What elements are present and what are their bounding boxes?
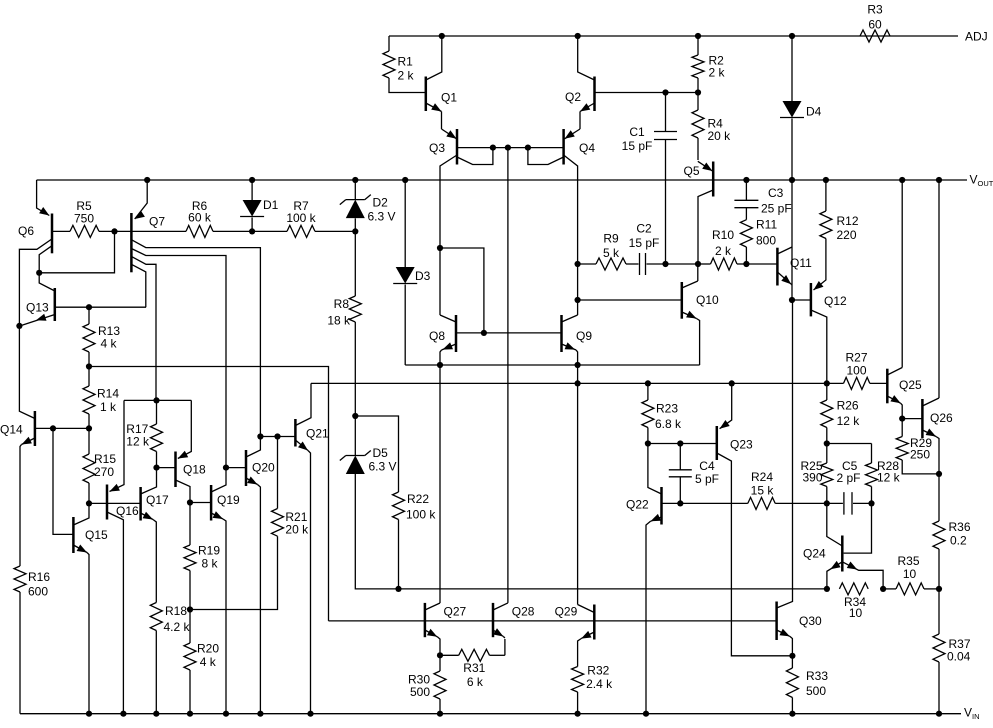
wire R6 to D1 bbox=[213, 230, 252, 232]
resistor R11 bbox=[740, 220, 752, 247]
transistor Q8 bbox=[440, 315, 456, 322]
transistor Q19 bbox=[211, 468, 226, 492]
svg-text:Q21: Q21 bbox=[306, 427, 329, 441]
svg-text:6 k: 6 k bbox=[467, 675, 484, 689]
wire Q6 collector 2 bbox=[39, 246, 52, 273]
svg-text:8 k: 8 k bbox=[202, 557, 219, 571]
svg-text:D5: D5 bbox=[373, 446, 389, 460]
svg-text:2.4 k: 2.4 k bbox=[586, 677, 613, 691]
svg-text:Q6: Q6 bbox=[18, 224, 34, 238]
svg-text:D1: D1 bbox=[263, 198, 279, 212]
capacitor C1 bbox=[662, 89, 668, 95]
transistor Q15 bbox=[73, 503, 89, 525]
svg-text:Q11: Q11 bbox=[790, 256, 812, 270]
diode D1 bbox=[249, 177, 255, 183]
wire Q6 base bbox=[52, 230, 70, 232]
svg-text:R23: R23 bbox=[656, 401, 678, 415]
resistor R14 bbox=[88, 367, 90, 387]
wire Q10 base bbox=[578, 299, 682, 301]
wire Q9 Q29 column bbox=[577, 365, 579, 605]
wire ADJ rail bbox=[389, 35, 958, 37]
resistor R28 bbox=[871, 444, 873, 464]
wire Q6 mirror tie bbox=[39, 231, 114, 272]
svg-text:R32: R32 bbox=[587, 664, 609, 678]
resistor R1 bbox=[388, 36, 390, 51]
wire mirror bus bbox=[89, 367, 329, 621]
wire sink rail bbox=[311, 382, 827, 384]
resistor R4 bbox=[697, 93, 699, 111]
svg-text:18 k: 18 k bbox=[327, 314, 351, 328]
transistor Q2 bbox=[593, 77, 596, 112]
svg-text:Q22: Q22 bbox=[626, 498, 649, 512]
transistor Q27 bbox=[425, 603, 440, 610]
svg-text:20 k: 20 k bbox=[708, 129, 732, 143]
transistor Q6 bbox=[37, 180, 50, 216]
svg-text:Q30: Q30 bbox=[799, 614, 822, 628]
wire Q11 base bbox=[746, 263, 777, 265]
transistor Q14 bbox=[19, 326, 35, 419]
svg-text:R12: R12 bbox=[837, 214, 859, 228]
capacitor C4 bbox=[679, 444, 681, 470]
resistor R10 bbox=[698, 263, 711, 265]
wire Q6 collector 1 bbox=[19, 239, 52, 326]
wire Q7 base bbox=[131, 230, 186, 232]
svg-text:Q18: Q18 bbox=[183, 463, 206, 477]
transistor Q24 bbox=[827, 503, 843, 546]
svg-text:390: 390 bbox=[802, 471, 822, 485]
resistor R13 bbox=[88, 307, 90, 324]
diode D4 bbox=[789, 33, 795, 39]
resistor R6 bbox=[186, 225, 213, 237]
resistor R22 bbox=[355, 416, 398, 492]
svg-text:500: 500 bbox=[410, 685, 430, 699]
svg-text:R16: R16 bbox=[28, 570, 50, 584]
wire Q21 base bbox=[260, 436, 295, 438]
resistor R7 bbox=[287, 225, 315, 237]
svg-text:220: 220 bbox=[837, 228, 857, 242]
svg-text:C4: C4 bbox=[699, 459, 715, 473]
svg-text:Q12: Q12 bbox=[824, 294, 847, 308]
wire VOUT rail bbox=[37, 179, 967, 181]
diode D2 zener bbox=[352, 177, 358, 183]
resistor R37 bbox=[938, 589, 940, 634]
resistor R5 bbox=[70, 225, 99, 237]
svg-text:100: 100 bbox=[846, 364, 866, 378]
resistor R19 bbox=[189, 503, 191, 546]
svg-text:600: 600 bbox=[28, 585, 48, 599]
resistor R2 bbox=[695, 33, 701, 39]
svg-text:Q7: Q7 bbox=[149, 215, 165, 229]
wire Q16 emitter bbox=[110, 400, 125, 491]
wire R7 to D2 bbox=[315, 230, 355, 232]
wire Q19 base bbox=[190, 502, 211, 504]
svg-text:Q23: Q23 bbox=[730, 438, 753, 452]
wire Q3 collector tie bbox=[457, 148, 493, 165]
wire Q7 collector 4 bbox=[131, 264, 145, 307]
resistor R3 bbox=[860, 30, 890, 42]
resistor R23 bbox=[647, 383, 649, 400]
svg-text:C3: C3 bbox=[768, 186, 784, 200]
svg-text:4 k: 4 k bbox=[200, 655, 217, 669]
svg-text:Q4: Q4 bbox=[579, 141, 595, 155]
resistor R18 bbox=[150, 603, 162, 631]
svg-text:100 k: 100 k bbox=[286, 211, 316, 225]
svg-text:Q17: Q17 bbox=[146, 493, 169, 507]
wire emitter rail bbox=[405, 364, 699, 366]
wire VIN rail bbox=[20, 713, 961, 715]
svg-text:Q13: Q13 bbox=[26, 301, 49, 315]
svg-text:R15: R15 bbox=[94, 452, 116, 466]
wire Q27 collector bbox=[439, 365, 441, 603]
svg-text:R19: R19 bbox=[198, 544, 220, 558]
svg-text:10: 10 bbox=[903, 567, 917, 581]
resistor R31 bbox=[440, 654, 459, 656]
transistor Q21 bbox=[295, 383, 311, 425]
svg-text:R20: R20 bbox=[197, 641, 219, 655]
wire Q12 base bbox=[792, 299, 811, 301]
svg-text:10: 10 bbox=[849, 606, 863, 620]
resistor R35 bbox=[883, 588, 896, 590]
transistor Q17 bbox=[141, 468, 157, 494]
resistor R8 bbox=[354, 231, 356, 296]
wire Q8 collector tie bbox=[437, 245, 443, 251]
svg-text:C2: C2 bbox=[636, 222, 652, 236]
transistor Q23 bbox=[720, 383, 732, 428]
svg-text:6.8 k: 6.8 k bbox=[655, 417, 682, 431]
transistor Q10 bbox=[681, 282, 684, 319]
resistor R12 bbox=[823, 177, 829, 183]
wire R28 branch bbox=[827, 443, 872, 445]
svg-text:Q29: Q29 bbox=[555, 605, 578, 619]
wire C5 left bbox=[827, 502, 843, 504]
svg-text:Q28: Q28 bbox=[512, 605, 535, 619]
resistor R32 bbox=[572, 667, 584, 693]
svg-text:Q15: Q15 bbox=[85, 528, 108, 542]
capacitor C5 bbox=[843, 492, 845, 515]
svg-text:4 k: 4 k bbox=[101, 337, 118, 351]
svg-text:Q27: Q27 bbox=[444, 605, 467, 619]
svg-text:R18: R18 bbox=[165, 604, 187, 618]
resistor R16 bbox=[14, 566, 26, 592]
svg-text:2 k: 2 k bbox=[709, 66, 726, 80]
wire Q7 collector 2 bbox=[131, 249, 226, 468]
resistor R20 bbox=[189, 610, 191, 644]
wire Q3 collector bbox=[440, 155, 457, 315]
transistor Q22 bbox=[648, 444, 662, 495]
svg-text:R11: R11 bbox=[756, 218, 777, 232]
svg-text:0.04: 0.04 bbox=[947, 650, 971, 664]
resistor R17 bbox=[156, 400, 158, 424]
svg-text:6.3 V: 6.3 V bbox=[369, 460, 397, 474]
svg-text:Q16: Q16 bbox=[116, 504, 139, 518]
svg-text:R35: R35 bbox=[897, 554, 919, 568]
svg-text:Q2: Q2 bbox=[565, 90, 581, 104]
transistor Q12 bbox=[810, 283, 813, 316]
svg-text:D2: D2 bbox=[373, 195, 389, 209]
svg-text:4.2 k: 4.2 k bbox=[164, 620, 191, 634]
resistor R24 bbox=[748, 497, 775, 509]
svg-text:1 k: 1 k bbox=[100, 400, 117, 414]
svg-text:500: 500 bbox=[806, 684, 826, 698]
svg-text:C1: C1 bbox=[629, 125, 645, 139]
wire R8 bias rail bbox=[399, 588, 827, 590]
wire emitter bus Q16/Q18 bbox=[124, 399, 191, 401]
wire Q18 emitter bbox=[178, 400, 192, 458]
resistor R29 bbox=[901, 419, 903, 437]
resistor R25 bbox=[826, 444, 828, 464]
resistor R21 bbox=[272, 509, 284, 537]
wire mirror base bus bbox=[329, 620, 777, 622]
transistor Q28 bbox=[493, 603, 508, 610]
resistor R30 bbox=[439, 655, 441, 671]
transistor Q18 bbox=[178, 451, 188, 459]
resistor R15 bbox=[88, 428, 90, 454]
transistor Q26 bbox=[921, 399, 924, 438]
svg-text:2 pF: 2 pF bbox=[837, 471, 861, 485]
wire Q4 collector bbox=[564, 155, 578, 315]
svg-text:D3: D3 bbox=[415, 269, 431, 283]
resistor R26 bbox=[826, 383, 828, 400]
wire Q26 base bbox=[902, 418, 922, 420]
resistor R33 bbox=[791, 656, 793, 668]
svg-text:R24: R24 bbox=[751, 470, 773, 484]
resistor R36 bbox=[938, 474, 940, 521]
svg-text:R10: R10 bbox=[712, 228, 734, 242]
wire Q3 base bbox=[457, 147, 564, 149]
svg-text:0.2: 0.2 bbox=[950, 534, 967, 548]
svg-text:60 k: 60 k bbox=[188, 211, 212, 225]
wire base column bbox=[507, 148, 509, 603]
wire Q16 base bbox=[89, 502, 141, 504]
svg-text:270: 270 bbox=[94, 465, 114, 479]
wire Q8 Q9 base bbox=[456, 332, 562, 334]
svg-text:250: 250 bbox=[910, 448, 930, 462]
transistor Q5 bbox=[712, 162, 715, 197]
svg-text:Q19: Q19 bbox=[217, 493, 240, 507]
transistor Q3 bbox=[456, 129, 459, 165]
wire Q7 collector 1 bbox=[131, 240, 260, 437]
capacitor C2 bbox=[639, 253, 641, 275]
svg-text:Q14: Q14 bbox=[0, 423, 23, 437]
wire C5 right bbox=[853, 502, 872, 504]
wire Q1 collector bbox=[439, 33, 445, 39]
svg-text:12 k: 12 k bbox=[877, 471, 901, 485]
wire Q7 collector 3 bbox=[131, 256, 156, 400]
svg-text:Q26: Q26 bbox=[930, 411, 953, 425]
svg-text:15 pF: 15 pF bbox=[622, 139, 653, 153]
svg-text:ADJ: ADJ bbox=[965, 30, 988, 44]
transistor Q13 bbox=[54, 288, 57, 321]
transistor Q29 bbox=[578, 605, 595, 613]
svg-text:15 pF: 15 pF bbox=[629, 236, 660, 250]
transistor Q7 bbox=[144, 177, 150, 183]
wire VOUT to Q12 base bbox=[791, 180, 793, 300]
wire R24 to R25 bbox=[775, 502, 827, 504]
wire R21 link bbox=[190, 536, 278, 609]
svg-text:20 k: 20 k bbox=[285, 523, 309, 537]
resistor R34 bbox=[839, 583, 868, 595]
resistor R27 bbox=[827, 382, 844, 384]
diode D3 bbox=[402, 177, 408, 183]
svg-text:R27: R27 bbox=[845, 351, 867, 365]
resistor R9 bbox=[578, 263, 596, 265]
svg-text:100 k: 100 k bbox=[406, 508, 436, 522]
svg-text:Q9: Q9 bbox=[576, 329, 592, 343]
transistor Q25 bbox=[886, 369, 889, 404]
wire Q4 collector tie bbox=[528, 148, 564, 165]
wire Q2 collector bbox=[575, 33, 581, 39]
svg-text:5 pF: 5 pF bbox=[695, 472, 719, 486]
svg-text:Q10: Q10 bbox=[696, 293, 719, 307]
svg-text:750: 750 bbox=[74, 211, 94, 225]
wire C2 to Q5 node bbox=[666, 263, 698, 265]
svg-text:25 pF: 25 pF bbox=[761, 202, 792, 216]
svg-text:Q3: Q3 bbox=[429, 141, 445, 155]
svg-text:Q25: Q25 bbox=[899, 378, 922, 392]
svg-text:Q20: Q20 bbox=[252, 461, 275, 475]
transistor Q20 bbox=[246, 437, 260, 458]
svg-text:60: 60 bbox=[868, 18, 882, 32]
wire Q20 base bbox=[226, 467, 246, 469]
transistor Q4 bbox=[562, 129, 565, 165]
wire Q18 base bbox=[157, 467, 176, 469]
transistor Q9 bbox=[562, 315, 578, 322]
svg-text:R14: R14 bbox=[97, 387, 119, 401]
wire Q15 base bbox=[53, 428, 73, 534]
wire R5 to Q7 bbox=[99, 230, 131, 232]
capacitor C3 bbox=[743, 177, 749, 183]
svg-text:Q5: Q5 bbox=[684, 164, 700, 178]
zener D5 bbox=[354, 416, 356, 456]
svg-text:R3: R3 bbox=[867, 3, 883, 17]
svg-text:R31: R31 bbox=[463, 661, 485, 675]
wire Q22 base bbox=[662, 502, 748, 504]
wire Q13 base bbox=[55, 306, 146, 308]
svg-text:R8: R8 bbox=[334, 297, 350, 311]
svg-text:12 k: 12 k bbox=[837, 414, 861, 428]
svg-text:D4: D4 bbox=[806, 105, 822, 119]
svg-text:R9: R9 bbox=[603, 232, 619, 246]
transistor Q16 bbox=[110, 484, 120, 492]
transistor Q1 bbox=[425, 77, 428, 112]
svg-text:R33: R33 bbox=[806, 669, 828, 683]
svg-text:2 k: 2 k bbox=[398, 69, 415, 83]
wire Q23 base bbox=[648, 443, 717, 445]
svg-text:R36: R36 bbox=[949, 520, 971, 534]
svg-text:Q24: Q24 bbox=[803, 547, 826, 561]
svg-text:6.3 V: 6.3 V bbox=[368, 210, 396, 224]
transistor Q11 bbox=[776, 248, 779, 286]
svg-text:800: 800 bbox=[756, 234, 776, 248]
svg-text:12 k: 12 k bbox=[126, 435, 150, 449]
svg-text:Q8: Q8 bbox=[429, 329, 445, 343]
wire Q2 base bbox=[595, 92, 699, 94]
transistor Q30 bbox=[777, 300, 793, 608]
svg-text:15 k: 15 k bbox=[751, 484, 775, 498]
svg-text:2 k: 2 k bbox=[715, 244, 732, 258]
wire Q14 base bbox=[35, 427, 89, 429]
svg-text:R26: R26 bbox=[837, 399, 859, 413]
wire D1 to R7 bbox=[252, 230, 287, 232]
svg-text:Q1: Q1 bbox=[441, 91, 457, 105]
svg-text:R1: R1 bbox=[398, 55, 414, 69]
svg-text:R22: R22 bbox=[407, 492, 429, 506]
svg-text:5 k: 5 k bbox=[603, 246, 620, 260]
